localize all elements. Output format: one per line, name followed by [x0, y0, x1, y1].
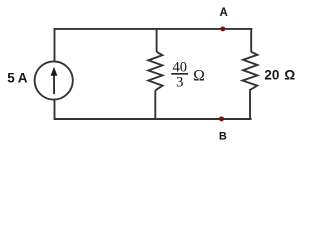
current source I1 circle: [35, 61, 73, 99]
wire right vertical upper: [250, 28, 252, 52]
node A junction dot: [220, 26, 225, 31]
current source I1 arrow: [51, 67, 58, 94]
svg-text:A: A: [220, 7, 228, 19]
resistor R1 40/3 ohm zigzag: [148, 52, 162, 91]
node B junction dot: [219, 116, 224, 121]
wire left vertical upper: [54, 28, 56, 62]
wire top horizontal: [54, 28, 253, 30]
svg-text:A: A: [18, 71, 28, 86]
resistor R2 20 ohm zigzag: [243, 52, 258, 91]
wire right vertical lower: [249, 90, 251, 120]
wire middle branch lower: [154, 90, 156, 119]
wire left vertical lower: [54, 99, 56, 120]
svg-text:Ω: Ω: [193, 68, 205, 85]
value label 40/3 ohm fraction bar: [171, 73, 188, 75]
svg-text:B: B: [219, 131, 227, 143]
wire bottom horizontal: [54, 118, 252, 120]
wire middle branch upper: [156, 28, 158, 52]
svg-text:20: 20: [264, 67, 279, 82]
svg-text:3: 3: [176, 75, 183, 91]
svg-text:Ω: Ω: [284, 67, 295, 82]
svg-text:5: 5: [7, 71, 15, 86]
